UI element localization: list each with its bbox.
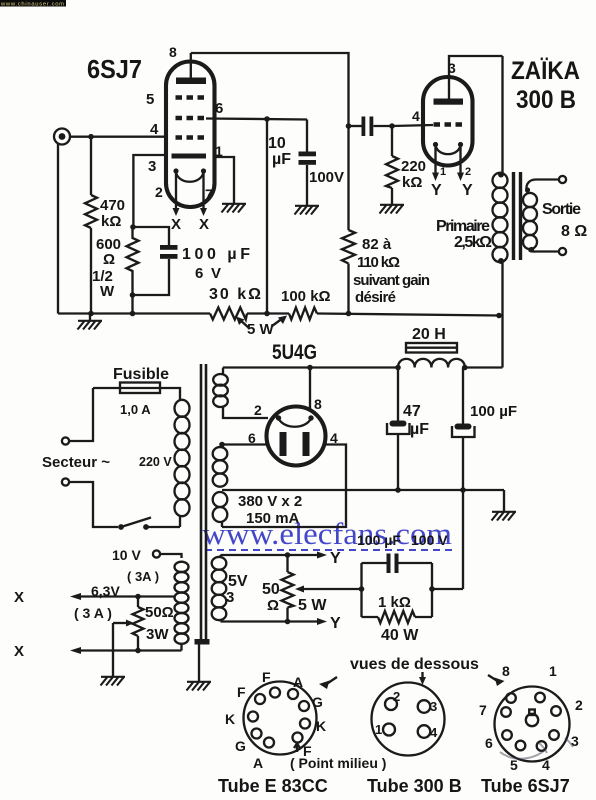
svg-text:www.chinauser.com: www.chinauser.com <box>0 1 64 7</box>
svg-text:1: 1 <box>440 166 446 178</box>
arrow to 300B socket <box>419 672 426 685</box>
V1 grid row pin 5 <box>176 95 207 99</box>
V2 filament <box>433 142 463 154</box>
node choke left <box>395 365 401 371</box>
svg-text:kΩ: kΩ <box>402 174 422 191</box>
svg-text:( 3 A ): ( 3 A ) <box>74 605 112 621</box>
svg-text:300 B: 300 B <box>516 86 576 114</box>
wire V3 pin 4 to HV winding bottom <box>222 445 346 528</box>
wire screen junction down to bus <box>266 119 268 314</box>
svg-text:Tube 300 B: Tube 300 B <box>367 776 462 796</box>
svg-text:8: 8 <box>314 396 322 412</box>
power transformer T1 core <box>195 364 210 645</box>
B+ rail from rectifier to choke <box>223 366 398 368</box>
capacitor C3 coupling <box>349 117 393 137</box>
socket 6SJ7 pin labels <box>479 663 583 773</box>
svg-text:A: A <box>293 674 303 690</box>
wire jack down to ground bus <box>57 144 59 314</box>
svg-text:4: 4 <box>412 108 420 124</box>
svg-text:2: 2 <box>155 184 163 200</box>
tube V2 300B envelope <box>423 77 473 166</box>
svg-text:2: 2 <box>465 166 471 178</box>
tube V1 6SJ7 envelope <box>166 62 215 208</box>
svg-text:( 3A ): ( 3A ) <box>127 569 159 584</box>
svg-text:Y: Y <box>462 182 473 199</box>
switch S1 <box>118 515 180 530</box>
svg-text:ZAÏKA: ZAÏKA <box>511 57 580 85</box>
V1 grid row pin 6 <box>176 116 207 120</box>
svg-text:220 V: 220 V <box>139 455 172 469</box>
svg-text:8 Ω: 8 Ω <box>561 223 587 240</box>
node bias right <box>429 586 435 592</box>
socket E83CC pin labels <box>225 669 326 771</box>
svg-text:6,3V: 6,3V <box>91 583 120 599</box>
T1 HV winding 380Vx2 <box>213 445 228 528</box>
site banner www.chinauser.com <box>0 0 66 7</box>
socket 300B pins <box>383 698 430 738</box>
svg-text:vues de dessous: vues de dessous <box>350 656 479 673</box>
svg-text:4: 4 <box>430 725 438 740</box>
R8 wiper arrow from bias network <box>295 586 362 593</box>
svg-text:100V: 100V <box>309 169 344 186</box>
svg-text:110 kΩ: 110 kΩ <box>357 254 400 271</box>
svg-text:2: 2 <box>393 689 400 704</box>
socket 6SJ7 center keyway <box>526 710 538 727</box>
node junction at 470k top <box>88 134 94 140</box>
svg-text:100 V: 100 V <box>411 532 448 548</box>
svg-text:10 V: 10 V <box>112 547 141 563</box>
socket E83CC pin holes <box>248 688 310 748</box>
speaker terminal bottom <box>529 247 566 255</box>
ground main <box>492 512 517 521</box>
svg-text:380 V x 2: 380 V x 2 <box>238 493 302 510</box>
smudge marks near 6SJ7 socket <box>500 738 573 759</box>
V1 plate (pin 8) <box>176 53 206 84</box>
svg-text:( Point milieu ): ( Point milieu ) <box>290 755 386 771</box>
resistor R5 82-110k plate load <box>342 126 430 314</box>
V3 filament arc <box>276 415 314 426</box>
svg-text:X: X <box>171 216 181 233</box>
resistor R4 100k <box>281 288 331 320</box>
T1 5V rectifier winding <box>213 368 228 408</box>
svg-text:5V: 5V <box>228 573 248 590</box>
capacitor C1 100uF 6V <box>133 227 251 295</box>
V1 pin 1 wire to ground <box>214 157 246 213</box>
node C4 ground <box>395 487 401 493</box>
svg-text:150 mA: 150 mA <box>246 510 300 527</box>
V3 anode plates <box>280 432 310 456</box>
V2 filament pin 2 arrow to Y <box>457 147 473 199</box>
wire winding bottom with arrow to X <box>14 643 182 660</box>
svg-text:100 µF: 100 µF <box>357 532 401 548</box>
svg-text:2: 2 <box>575 697 583 713</box>
T1 10V-6.3V winding <box>160 554 189 651</box>
wire V3 pin 6 to HV winding top <box>222 443 267 445</box>
node C5 ground <box>460 487 466 493</box>
svg-text:30 kΩ: 30 kΩ <box>209 286 261 303</box>
svg-text:désiré: désiré <box>355 289 396 306</box>
potentiometer R8 50 ohm 5W <box>262 555 327 622</box>
svg-text:suivant gain: suivant gain <box>353 272 430 289</box>
svg-text:3: 3 <box>226 589 234 606</box>
svg-text:8: 8 <box>169 44 177 60</box>
resistor R6 220k grid leak <box>386 126 426 204</box>
svg-text:20 H: 20 H <box>412 326 446 343</box>
node 600ohm bottom on bus <box>130 311 136 317</box>
wire choke right to primary riser <box>465 366 503 368</box>
svg-text:1: 1 <box>375 722 382 737</box>
socket 300B outline <box>372 683 445 756</box>
output transformer core <box>514 172 521 260</box>
ground on bus <box>78 314 103 330</box>
T1 primary 220V winding <box>139 400 190 516</box>
wire cathode to bus <box>131 295 133 314</box>
mains terminal top <box>62 388 93 445</box>
svg-text:5U4G: 5U4G <box>272 341 317 364</box>
tube V3 5U4G envelope <box>267 407 326 466</box>
input jack J1 <box>54 129 70 145</box>
svg-text:7: 7 <box>479 702 487 718</box>
svg-text:1: 1 <box>549 663 557 679</box>
output transformer secondary coil <box>523 193 537 249</box>
socket 6SJ7 outline <box>495 687 570 762</box>
node cathode pot top <box>285 552 291 558</box>
socket E83CC outline <box>244 682 317 755</box>
wire bus between resistors <box>247 312 289 314</box>
svg-text:2,5kΩ: 2,5kΩ <box>454 234 492 251</box>
ground under R6 <box>380 205 405 214</box>
svg-text:6SJ7: 6SJ7 <box>87 54 142 84</box>
wire 5V top with arrow to Y <box>221 550 342 567</box>
label Sortie 8 ohm <box>542 201 587 240</box>
resistor R9 1k 40W <box>362 594 433 644</box>
svg-text:X: X <box>14 589 24 606</box>
ground chassis <box>187 682 212 691</box>
node cathode network top <box>130 224 136 230</box>
wire to 300B grid <box>392 125 433 126</box>
svg-text:5 W: 5 W <box>247 321 275 338</box>
svg-text:Ω: Ω <box>103 251 115 268</box>
node plate load bottom on bus <box>346 311 352 317</box>
svg-text:kΩ: kΩ <box>101 213 121 230</box>
wire jack to grid pin 4 <box>70 136 166 138</box>
capacitor C2 10uF 100V <box>268 120 344 206</box>
watermark www.elecfans.com <box>202 516 452 551</box>
svg-text:47: 47 <box>403 403 421 420</box>
R7 wiper arrow to ground <box>101 620 135 686</box>
terminal 10V <box>112 547 160 584</box>
svg-text:3W: 3W <box>146 626 169 643</box>
node screen junction <box>264 116 270 122</box>
wire V3 pin 2 to 5V winding <box>223 407 268 418</box>
bias network box <box>362 563 433 617</box>
ground bus wire left section <box>58 312 210 314</box>
svg-text:µF: µF <box>410 421 429 438</box>
ground return line (center tap) <box>222 489 504 491</box>
label ZAIKA 300B <box>511 57 580 114</box>
wire bias network to ground line <box>432 588 463 590</box>
socket 300B pin labels <box>375 689 438 740</box>
choke L1 winding <box>398 359 465 368</box>
svg-text:X: X <box>14 643 24 660</box>
svg-text:Secteur ~: Secteur ~ <box>42 454 110 471</box>
label 380Vx2 150mA <box>238 493 302 527</box>
svg-text:3: 3 <box>430 699 437 714</box>
svg-text:Sortie: Sortie <box>542 201 581 218</box>
node cathode network bottom <box>130 292 136 298</box>
svg-text:3: 3 <box>148 158 156 175</box>
node choke right <box>462 365 468 371</box>
wire cathode pin 3 down <box>133 155 167 227</box>
choke L1 20H core <box>406 326 457 353</box>
wire V3 pin 8 riser to B+ rail <box>309 368 311 412</box>
node rectifier cathode riser <box>307 365 313 371</box>
svg-text:W: W <box>100 283 115 300</box>
node grid leak junction <box>389 123 395 129</box>
potentiometer R7 50 ohm 3W <box>133 597 174 651</box>
node hum pot top <box>135 594 141 600</box>
capacitor C6 100uF 100V <box>357 532 448 573</box>
svg-text:K: K <box>316 718 326 734</box>
svg-text:40 W: 40 W <box>381 627 419 644</box>
resistor R3 30k 5W <box>209 286 261 320</box>
svg-text:10: 10 <box>268 135 286 152</box>
label 5W with arrows <box>236 316 287 339</box>
capacitor C4 47uF electrolytic <box>387 368 429 491</box>
node 470k bottom on bus <box>88 311 94 317</box>
svg-text:Fusible: Fusible <box>113 366 169 383</box>
svg-text:G: G <box>235 738 246 754</box>
output transformer T2 primary coil <box>436 56 508 368</box>
svg-text:5: 5 <box>146 91 154 108</box>
svg-text:6: 6 <box>215 100 223 117</box>
fuse F1 <box>93 366 180 417</box>
svg-text:Tube 6SJ7: Tube 6SJ7 <box>481 776 570 796</box>
svg-text:100 kΩ: 100 kΩ <box>281 288 331 305</box>
wire V1 plate to top rail <box>191 53 349 126</box>
V2 grid row <box>434 122 463 126</box>
svg-text:F: F <box>262 669 271 685</box>
wire screen pin 6 to bypass cap <box>206 119 307 120</box>
svg-text:Tube E 83CC: Tube E 83CC <box>218 776 328 796</box>
wire 5V bottom with arrow to Y <box>221 615 342 632</box>
svg-text:Primaire: Primaire <box>436 218 490 235</box>
svg-text:100 µF: 100 µF <box>470 403 517 420</box>
svg-text:50: 50 <box>262 581 280 598</box>
wire ground line to ground symbol <box>503 490 505 511</box>
node plate load junction <box>346 123 352 129</box>
svg-text:Y: Y <box>431 182 442 199</box>
svg-text:5 W: 5 W <box>298 597 327 614</box>
V1 cathode bar (pin 3) <box>172 154 207 159</box>
V2 filament pin 1 arrow to Y <box>431 147 446 199</box>
node B+ bus joins primary <box>496 313 502 319</box>
wire bus right section to B+ riser <box>317 314 499 316</box>
node screen drop on bus <box>264 311 270 317</box>
resistor R1 470k <box>85 137 125 314</box>
svg-text:A: A <box>253 755 263 771</box>
V1 heater filament <box>173 168 206 181</box>
svg-text:220: 220 <box>401 158 426 175</box>
arrow to E83CC socket <box>319 677 337 689</box>
svg-text:Ω: Ω <box>267 597 279 614</box>
svg-text:F: F <box>237 684 246 700</box>
capacitor C5 100uF electrolytic <box>452 368 517 590</box>
svg-text:7: 7 <box>205 186 213 202</box>
ground under C2 <box>295 206 320 215</box>
wire 6.3V tap with arrow to X <box>14 583 175 621</box>
svg-text:1 kΩ: 1 kΩ <box>378 594 411 611</box>
wire V2 plate to output transformer <box>449 56 503 99</box>
svg-text:Y: Y <box>330 615 341 632</box>
svg-text:X: X <box>199 216 209 233</box>
socket 6SJ7 pin holes <box>501 693 561 751</box>
svg-text:K: K <box>225 711 235 727</box>
svg-text:1,0 A: 1,0 A <box>120 402 151 417</box>
arrow to 6SJ7 socket <box>488 675 505 686</box>
V1 grid row pin 4 <box>176 135 207 139</box>
svg-text:Y: Y <box>330 550 341 567</box>
svg-text:470: 470 <box>100 197 125 214</box>
node HV winding top <box>219 442 225 448</box>
V1 heater pin 7 lead with arrow to X <box>199 173 209 233</box>
wire core to chassis ground <box>198 644 200 681</box>
V1 heater pin 2 lead with arrow to X <box>171 173 181 233</box>
svg-text:82 à: 82 à <box>362 236 392 253</box>
T1 5V filament winding for 300B <box>212 555 248 622</box>
node bias left <box>359 586 365 592</box>
svg-text:4: 4 <box>542 757 550 773</box>
V2 plate bar <box>434 99 464 105</box>
svg-text:4: 4 <box>150 121 159 138</box>
svg-text:50Ω: 50Ω <box>145 604 174 621</box>
svg-text:6: 6 <box>485 735 493 751</box>
mains terminal bottom <box>62 478 118 527</box>
svg-text:µF: µF <box>272 151 291 168</box>
speaker terminal top <box>525 176 566 194</box>
resistor R2 600 ohm 1/2W <box>92 227 139 300</box>
node cathode pot bottom <box>285 619 291 625</box>
svg-text:2: 2 <box>254 402 262 418</box>
node hum pot bottom <box>135 648 141 654</box>
svg-text:8: 8 <box>502 663 510 679</box>
svg-text:G: G <box>312 694 323 710</box>
